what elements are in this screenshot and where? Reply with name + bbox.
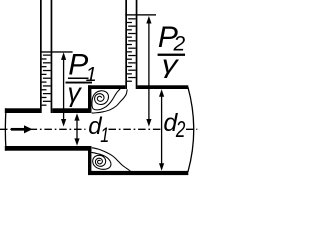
wide pipe top wall (left of tube gap) [88, 85, 125, 89]
right piezometer tube wall (left) [125, 0, 127, 89]
left tube graduation ticks [42, 55, 51, 106]
flow arrow [11, 128, 25, 131]
right tube graduation ticks [127, 18, 136, 82]
wide pipe bottom wall [88, 171, 188, 175]
left pipe end cap (break line) [4, 108, 7, 150]
d1 dimension arrow [74, 113, 79, 146]
right piezometer tube wall (right) [136, 0, 138, 89]
P2/gamma head arrow [146, 16, 151, 127]
svg-text:γ: γ [68, 77, 83, 107]
svg-text:γ: γ [162, 51, 180, 79]
wide pipe top wall (right of tube gap) [137, 85, 188, 89]
right tube water level line [125, 14, 156, 15]
top eddy outer streamline [92, 89, 127, 113]
centerline (dash-dot) [0, 128, 197, 130]
narrow pipe bottom wall [5, 146, 92, 151]
left piezometer tube wall (left) [40, 0, 42, 113]
top eddy spiral [92, 89, 120, 110]
svg-text:2: 2 [175, 116, 185, 142]
P2 fraction bar [158, 54, 185, 56]
left piezometer tube wall (right) [51, 0, 53, 113]
d2 dimension arrow [159, 89, 164, 170]
bottom eddy spiral [91, 152, 111, 169]
P1/gamma head arrow [61, 52, 66, 126]
narrow pipe top wall (right of tube gap) [52, 108, 91, 113]
bottom eddy outer streamline [92, 148, 131, 171]
bottom step riser [88, 146, 91, 175]
P1 fraction bars [68, 78, 89, 80]
top step riser [88, 85, 91, 113]
narrow pipe top wall (left of tube gap) [5, 108, 40, 113]
right pipe end cap (break line) [188, 87, 194, 172]
svg-text:1: 1 [100, 124, 109, 147]
left tube water level line [40, 51, 73, 52]
